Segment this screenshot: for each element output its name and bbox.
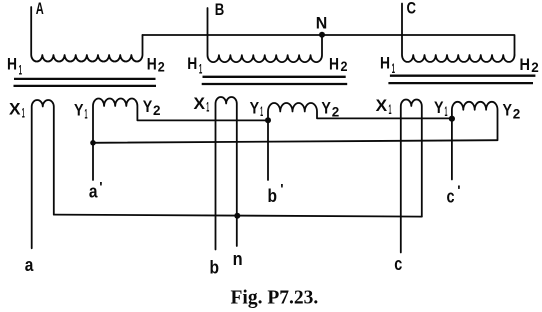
svg-text:A: A	[36, 0, 44, 18]
svg-text:X: X	[9, 100, 21, 119]
junction node N on neutral bus	[319, 32, 325, 38]
svg-text:b: b	[210, 258, 220, 278]
junction node a-prime on Y1 of transformer 1	[90, 140, 96, 146]
junction node n on n bus	[234, 213, 240, 219]
junction node c-prime on Y1 of transformer 3	[449, 116, 455, 122]
svg-text:1: 1	[199, 61, 202, 77]
core line lower transformer 3	[388, 82, 533, 84]
svg-text:Y: Y	[250, 98, 260, 117]
svg-text:1: 1	[206, 99, 209, 115]
secondary winding Y1-Y2 transformer 2 with lead to terminal b-prime	[268, 103, 452, 180]
core line upper transformer 1	[14, 78, 156, 80]
svg-text:1: 1	[389, 101, 392, 117]
svg-text:a: a	[89, 182, 98, 202]
svg-text:1: 1	[392, 60, 395, 76]
svg-text:2: 2	[341, 58, 348, 74]
svg-text:H: H	[187, 54, 197, 73]
svg-text:1: 1	[85, 105, 88, 121]
svg-text:': '	[457, 182, 460, 198]
svg-text:Y: Y	[321, 98, 331, 117]
svg-text:C: C	[407, 0, 417, 18]
svg-text:b: b	[268, 186, 278, 206]
svg-text:': '	[99, 179, 102, 195]
svg-text:2: 2	[531, 59, 539, 75]
svg-text:X: X	[376, 96, 388, 115]
svg-text:': '	[280, 181, 283, 197]
wire delta return from Y1 of transformer 1 to Y2 of transformer 3	[93, 140, 497, 143]
svg-text:Y: Y	[74, 101, 84, 120]
core line upper transformer 3	[390, 75, 536, 77]
wire C lead and primary winding H1-H2 transformer 3	[402, 4, 515, 62]
core line upper transformer 2	[203, 76, 346, 78]
secondary winding X1 transformer 1 with lead to terminal a	[32, 100, 54, 248]
svg-text:2: 2	[513, 106, 521, 122]
svg-text:Y: Y	[143, 97, 153, 116]
secondary winding X1 transformer 2 with leads to terminals b and n	[216, 97, 237, 250]
svg-text:H: H	[520, 55, 531, 74]
svg-text:2: 2	[332, 104, 340, 120]
wire A lead and primary winding H1-H2 transformer 1	[31, 7, 142, 62]
svg-text:H: H	[329, 54, 339, 73]
svg-text:2: 2	[158, 58, 165, 74]
secondary winding Y1-Y2 transformer 1 with lead to terminal a-prime	[93, 99, 268, 180]
svg-text:1: 1	[19, 61, 22, 77]
svg-text:c: c	[394, 254, 402, 274]
svg-text:Fig. P7.23.: Fig. P7.23.	[231, 287, 319, 308]
svg-text:N: N	[316, 13, 328, 32]
junction node b-prime on Y1 of transformer 2	[265, 117, 271, 123]
svg-text:H: H	[7, 55, 17, 74]
svg-text:c: c	[447, 187, 455, 207]
svg-text:1: 1	[260, 103, 263, 119]
core line lower transformer 2	[202, 83, 348, 85]
svg-text:Y: Y	[503, 100, 513, 119]
secondary winding Y1-Y2 transformer 3 with lead to terminal c-prime	[452, 102, 498, 180]
svg-text:B: B	[215, 0, 225, 19]
svg-text:1: 1	[445, 103, 448, 119]
svg-text:Y: Y	[434, 98, 444, 117]
core line lower transformer 1	[14, 85, 157, 87]
svg-text:n: n	[233, 249, 243, 269]
svg-text:X: X	[194, 94, 206, 113]
svg-text:2: 2	[153, 102, 161, 118]
svg-text:H: H	[380, 54, 390, 73]
wire neutral bus from H2 of transformer 1 to H2 of transformer 3	[143, 35, 515, 55]
wire B lead and primary winding H1-H2 transformer 2	[208, 8, 323, 62]
secondary winding X1 transformer 3 with lead to terminal c	[401, 100, 422, 253]
svg-text:a: a	[25, 255, 34, 275]
svg-text:1: 1	[22, 104, 25, 120]
wire n bus from X winding of transformer 1 to X winding of transformer 3	[54, 215, 422, 217]
svg-text:H: H	[147, 55, 157, 74]
